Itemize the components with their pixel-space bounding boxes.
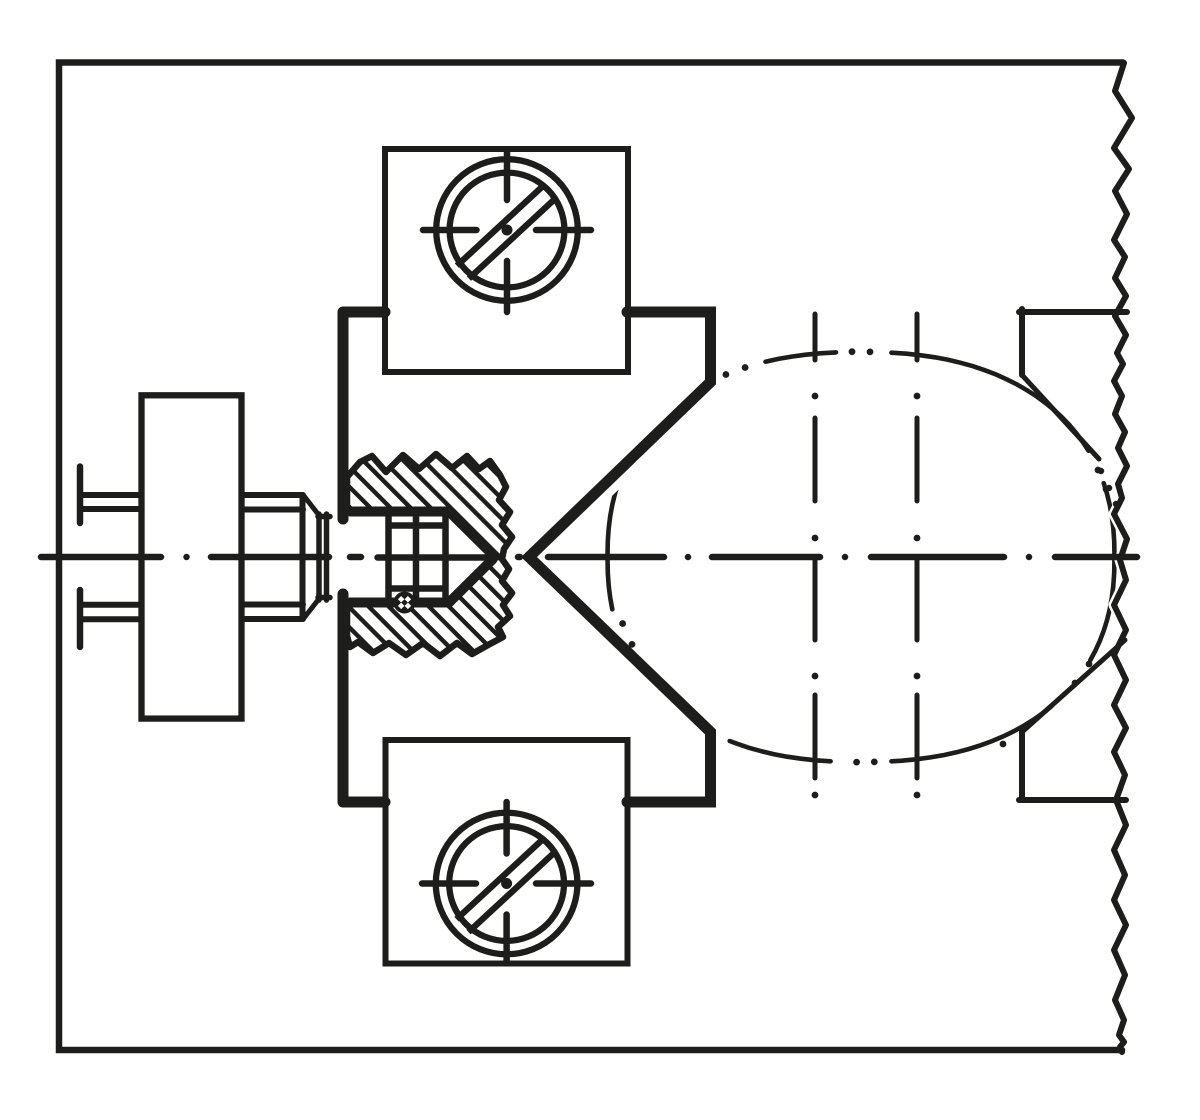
bottom block screw symbol xyxy=(422,802,591,961)
top jaw block xyxy=(385,149,628,372)
grub screw engaged thread outline (thick) xyxy=(350,512,493,603)
workpiece seat bottom edge xyxy=(1019,729,1126,800)
phantom dots of ball outline and hidden edges xyxy=(623,352,1106,762)
wire white casing: gap of ellipse at V-jaw arms xyxy=(529,385,713,729)
dog point detail circle xyxy=(394,592,416,614)
vertical centerline through ball, right xyxy=(915,314,920,778)
grub screw body lines xyxy=(389,517,446,597)
clamp body thick outline, left side with gap for screw xyxy=(343,312,385,802)
spindle neck xyxy=(318,514,330,600)
white interior of grub screw inside blob xyxy=(338,507,496,607)
break line (jagged right edge) xyxy=(1114,63,1132,1052)
workpiece plate seat (right piece) top edge xyxy=(1019,309,1127,375)
ball (spherical workpiece, phantom-line ellipse) xyxy=(608,352,1115,761)
grub screw axis crosshair xyxy=(378,554,498,561)
workpiece seat top cone line xyxy=(1022,375,1099,459)
top block screw symbol xyxy=(423,152,591,312)
vertical centerline through ball, left xyxy=(813,314,818,778)
tommy bar cross pin xyxy=(77,467,84,648)
spindle shaft lines xyxy=(242,495,304,619)
clamp body thick outline, right side with V jaw xyxy=(529,312,711,802)
main horizontal centerline xyxy=(41,554,1137,561)
border frame xyxy=(59,63,1123,1051)
spindle shoulder face xyxy=(300,495,306,619)
knurled knob xyxy=(142,395,242,718)
workpiece seat top cone hidden continuation dots xyxy=(1101,471,1116,504)
spindle chamfer bottom xyxy=(304,600,318,618)
workpiece seat bottom cone line xyxy=(1022,640,1125,732)
spindle chamfer top xyxy=(304,496,318,514)
wire white casing: gap of ellipse at break line xyxy=(1114,63,1132,1052)
tommy bar rod lines xyxy=(82,495,141,619)
bottom jaw block xyxy=(386,740,628,964)
broken-out section blob around thread (hatched) xyxy=(347,454,512,656)
